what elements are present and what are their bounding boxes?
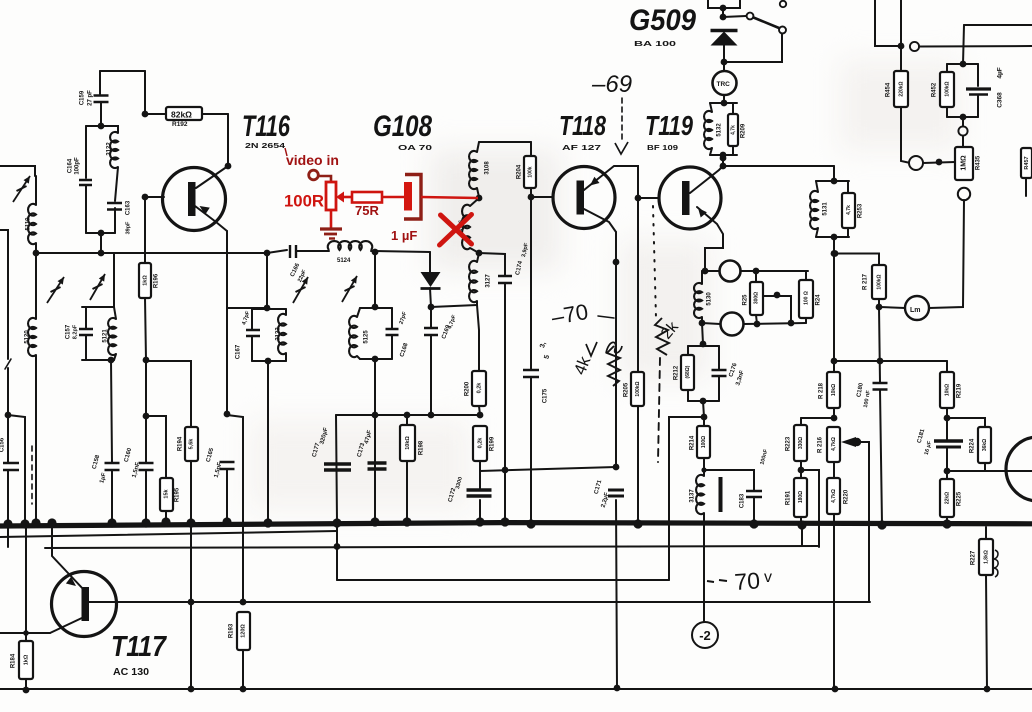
resistor R204 — [524, 156, 536, 188]
wire — [100, 233, 102, 253]
wire collector down — [615, 232, 617, 467]
wire — [391, 308, 393, 328]
bus node — [332, 518, 341, 527]
svg-text:10kΩ: 10kΩ — [944, 384, 950, 396]
svg-text:R219: R219 — [957, 383, 963, 398]
wire — [724, 34, 782, 63]
node — [699, 320, 706, 327]
node — [831, 250, 838, 257]
wire — [430, 307, 432, 327]
wire — [504, 283, 506, 470]
resistor R191 — [794, 478, 807, 517]
svg-text:5124: 5124 — [337, 258, 351, 264]
node — [720, 14, 727, 21]
wire — [285, 309, 287, 315]
node — [225, 163, 232, 170]
wire — [85, 185, 87, 233]
wire — [723, 45, 725, 62]
wire — [374, 415, 376, 521]
resistor R25 — [750, 282, 763, 315]
wire — [101, 126, 118, 133]
svg-text:100Ω: 100Ω — [701, 436, 707, 448]
capacitor C177 320uF — [324, 464, 351, 470]
inductor 5131 — [810, 191, 818, 229]
wire — [833, 408, 835, 418]
svg-text:R198: R198 — [419, 440, 425, 455]
transistor T116 — [163, 168, 226, 231]
svg-text:v: v — [764, 569, 772, 586]
wire — [962, 117, 964, 127]
wire — [429, 252, 431, 273]
resistor 75R (red) — [352, 192, 382, 203]
wire — [722, 8, 724, 17]
video in label (red) — [285, 148, 287, 156]
capacitor C166 series — [290, 245, 296, 258]
wire — [923, 162, 955, 163]
wire — [145, 113, 167, 115]
resistor R435 — [955, 147, 973, 180]
wire — [687, 346, 689, 355]
svg-text:R192: R192 — [172, 121, 188, 128]
potentiometer 100R (red) — [326, 182, 336, 210]
svg-text:C163: C163 — [126, 200, 132, 215]
wire — [702, 344, 704, 346]
svg-text:1 µF: 1 µF — [391, 228, 417, 243]
wire — [710, 148, 712, 155]
diode BA100 — [711, 29, 738, 32]
wire — [100, 102, 102, 126]
node — [720, 155, 727, 162]
bus node — [20, 519, 29, 528]
resistor R225 — [940, 479, 954, 517]
wire — [431, 305, 477, 307]
wire tank bottom — [710, 154, 737, 156]
wire — [946, 361, 948, 372]
resistor R212 — [681, 355, 694, 390]
resistor R220 — [827, 478, 840, 514]
wire — [25, 679, 27, 690]
capacitor C164 — [79, 180, 92, 185]
svg-text:C175: C175 — [543, 388, 549, 403]
bus node — [263, 518, 272, 527]
wire — [251, 336, 253, 361]
ferrite core bar — [719, 477, 723, 512]
trimmer arrow — [342, 276, 357, 302]
resistor R195 — [160, 478, 173, 511]
node — [5, 412, 12, 419]
capacitor C176 — [712, 370, 727, 376]
wire — [479, 500, 481, 521]
svg-text:T117: T117 — [111, 631, 168, 663]
svg-text:R454: R454 — [886, 82, 892, 97]
wire — [35, 176, 37, 205]
resistor R454 — [894, 71, 908, 107]
input terminal (red) — [309, 170, 319, 180]
svg-text:4,7kΩ: 4,7kΩ — [831, 489, 837, 503]
wire emitter — [584, 166, 638, 198]
svg-text:36kΩ: 36kΩ — [982, 439, 988, 451]
node — [720, 163, 727, 170]
svg-text:C183: C183 — [740, 493, 746, 508]
wire tank top — [816, 180, 849, 182]
node — [936, 159, 943, 166]
svg-text:R 218: R 218 — [819, 382, 825, 399]
resistor R199 — [473, 426, 487, 461]
wire — [963, 25, 964, 64]
bus node — [877, 520, 886, 529]
svg-text:C167: C167 — [236, 344, 242, 359]
wire — [336, 523, 338, 580]
wire — [479, 253, 505, 275]
svg-text:(68Ω): (68Ω) — [685, 365, 691, 378]
resistor R217 — [872, 265, 886, 299]
wire — [477, 301, 479, 371]
svg-text:R195: R195 — [175, 487, 181, 502]
wire emitter — [195, 206, 227, 231]
node — [700, 398, 707, 405]
wire — [35, 253, 37, 319]
bus node — [370, 517, 379, 526]
ground (red) — [320, 227, 342, 230]
inductor 3122 — [110, 132, 118, 168]
wire — [113, 253, 115, 307]
svg-text:OA 70: OA 70 — [398, 143, 432, 152]
capacitor C171 2,2uF — [608, 490, 624, 496]
svg-text:R191: R191 — [786, 490, 792, 505]
svg-text:-2: -2 — [699, 628, 711, 643]
wire — [144, 197, 146, 263]
svg-text:R 217: R 217 — [863, 273, 869, 290]
node — [372, 412, 379, 419]
wire — [357, 308, 360, 317]
wire tank top — [360, 307, 392, 309]
svg-text:R200: R200 — [465, 381, 471, 396]
resistor R196 — [139, 263, 151, 298]
terminal -2 — [692, 622, 718, 648]
wire — [114, 208, 116, 233]
svg-text:5131: 5131 — [823, 202, 829, 216]
wire — [984, 463, 986, 471]
node — [751, 520, 758, 527]
wire rail — [834, 360, 947, 362]
capacitor C165 — [220, 462, 235, 469]
svg-text:TRC: TRC — [717, 81, 731, 88]
wire — [723, 62, 725, 71]
node — [23, 687, 30, 694]
wire — [25, 524, 27, 641]
svg-text:R24: R24 — [816, 294, 822, 306]
wire collector — [584, 209, 616, 232]
wire — [816, 181, 818, 192]
wire — [99, 71, 101, 94]
resistor R200 — [472, 371, 486, 406]
component box top — [708, 0, 740, 8]
node — [143, 357, 150, 364]
svg-text:100kΩ: 100kΩ — [944, 81, 950, 96]
bus node — [633, 519, 642, 528]
node — [753, 268, 760, 275]
wire — [145, 298, 146, 360]
switch — [723, 16, 746, 17]
TRC circle — [713, 71, 737, 95]
wire — [111, 360, 112, 462]
svg-text:R225: R225 — [957, 491, 963, 506]
svg-text:5119: 5119 — [26, 217, 32, 231]
diode G108 — [421, 272, 441, 287]
resistor R205 — [631, 372, 644, 406]
wire — [723, 165, 834, 167]
svg-text:T116: T116 — [242, 110, 290, 143]
wire — [722, 155, 724, 158]
node — [143, 413, 150, 420]
wire collector — [690, 158, 723, 193]
wire — [703, 458, 705, 476]
svg-text:10kΩ: 10kΩ — [405, 436, 411, 450]
wire — [115, 167, 118, 201]
wire — [756, 315, 757, 324]
svg-text:T118: T118 — [559, 110, 606, 141]
wire — [732, 103, 734, 114]
wire — [85, 126, 87, 178]
wire — [753, 497, 755, 521]
wire feedback rail — [480, 467, 616, 471]
svg-text:120Ω: 120Ω — [240, 624, 246, 638]
wire — [704, 470, 754, 490]
node — [264, 250, 271, 257]
wire — [878, 299, 880, 307]
inductor 3116 (crossed out) — [462, 205, 470, 250]
wire — [929, 200, 964, 308]
svg-text:4,7kΩ: 4,7kΩ — [831, 437, 837, 451]
wire — [479, 461, 481, 471]
inductor 5119 — [28, 204, 36, 244]
svg-text:10kΩ: 10kΩ — [831, 384, 837, 396]
wire — [0, 166, 35, 176]
capacitor C167 — [246, 330, 260, 336]
wire — [285, 353, 287, 361]
svg-text:R214: R214 — [690, 435, 696, 450]
wire — [145, 470, 147, 521]
node — [944, 415, 951, 422]
wire — [800, 517, 802, 524]
wire — [227, 307, 267, 309]
wire — [702, 323, 703, 344]
svg-text:5121: 5121 — [103, 329, 109, 343]
wire — [946, 448, 948, 471]
svg-text:22kΩ: 22kΩ — [944, 492, 950, 504]
node — [240, 686, 247, 693]
transistor circle right edge — [1006, 437, 1032, 501]
svg-text:C157: C157 — [66, 324, 72, 339]
node — [372, 304, 379, 311]
node — [264, 305, 271, 312]
node — [774, 292, 781, 299]
svg-text:5125: 5125 — [364, 330, 370, 344]
wire — [530, 197, 532, 369]
inductor 5130 — [694, 283, 702, 318]
svg-text:70: 70 — [734, 567, 761, 595]
svg-text:100R: 100R — [284, 193, 324, 211]
capacitor C160 — [139, 463, 154, 470]
bus node — [749, 519, 758, 528]
wire — [638, 197, 659, 199]
wire — [85, 335, 87, 360]
svg-text:5120: 5120 — [25, 330, 31, 344]
svg-text:R457: R457 — [1024, 156, 1030, 169]
wire — [755, 271, 757, 282]
resistor R194 — [185, 427, 198, 461]
node — [876, 304, 883, 311]
wire — [710, 103, 712, 112]
transistor T119 — [659, 167, 721, 229]
wire — [732, 146, 734, 155]
bus node — [475, 517, 484, 526]
svg-text:3108: 3108 — [485, 161, 491, 175]
resistor R209 — [728, 114, 738, 146]
wire — [946, 517, 948, 523]
bus node — [402, 517, 411, 526]
svg-text:AC 130: AC 130 — [113, 667, 149, 678]
svg-text:R184: R184 — [11, 653, 17, 668]
wire — [85, 307, 87, 328]
svg-text:5130: 5130 — [707, 292, 713, 306]
node — [404, 412, 411, 419]
bus node — [222, 517, 231, 526]
bus node — [526, 519, 535, 528]
bus node — [161, 517, 170, 526]
node — [476, 250, 483, 257]
rail y547 — [45, 546, 819, 548]
wire — [801, 470, 819, 547]
svg-text:4,7k: 4,7k — [730, 125, 736, 135]
bottom rail y689 — [0, 688, 1032, 690]
wire — [847, 228, 849, 237]
wire — [430, 288, 431, 307]
wire to T117 base — [227, 415, 243, 601]
svg-text:R212: R212 — [674, 365, 680, 380]
svg-text:BA 100: BA 100 — [634, 39, 676, 48]
node — [614, 685, 621, 692]
wire — [0, 632, 50, 634]
inductor 5124 — [328, 241, 373, 250]
wire — [7, 470, 9, 521]
svg-text:100 Ω: 100 Ω — [803, 291, 809, 305]
wire — [406, 461, 408, 521]
wire — [718, 376, 720, 401]
node — [754, 321, 761, 328]
wire — [764, 296, 791, 323]
wire — [805, 271, 807, 280]
wire — [111, 470, 113, 521]
wire — [687, 390, 689, 401]
red wire to ground — [330, 210, 333, 228]
capacitor C368 4uF — [966, 87, 991, 90]
trimmer arrow — [13, 176, 30, 202]
resistor R218 — [827, 372, 840, 408]
wire — [251, 309, 253, 330]
wire bridge top rail — [702, 270, 719, 272]
wire — [880, 307, 905, 308]
resistor R253 — [842, 193, 855, 228]
wire — [835, 254, 879, 266]
node — [700, 341, 707, 348]
wire — [801, 525, 803, 546]
node — [898, 43, 905, 50]
node — [984, 686, 991, 693]
wire base — [145, 196, 164, 198]
node — [477, 412, 484, 419]
svg-text:100kΩ: 100kΩ — [635, 381, 641, 396]
node — [701, 467, 706, 472]
wire — [801, 417, 834, 419]
wire — [479, 471, 481, 489]
node — [23, 630, 29, 636]
node — [428, 412, 435, 419]
wire — [947, 116, 978, 118]
wire — [985, 527, 987, 539]
resistor R192 — [166, 107, 202, 120]
capacitor C158 — [105, 463, 120, 470]
svg-text:100kΩ: 100kΩ — [876, 274, 882, 289]
node — [721, 59, 728, 66]
svg-text:R199: R199 — [490, 436, 496, 451]
resistor R198 — [400, 425, 415, 461]
dashed gang line — [31, 446, 33, 504]
svg-text:R220: R220 — [844, 489, 850, 504]
wire tank top — [688, 345, 719, 347]
wire — [374, 359, 376, 415]
wire — [145, 360, 147, 462]
wire node rail — [36, 252, 267, 254]
wire — [833, 166, 835, 181]
resistor R184 — [19, 641, 33, 679]
svg-text:R435: R435 — [976, 155, 982, 170]
wire — [962, 136, 964, 147]
svg-text:2N 2654: 2N 2654 — [245, 141, 286, 150]
svg-text:AF 127: AF 127 — [562, 143, 601, 152]
wire top loop — [100, 70, 145, 72]
bus node — [107, 518, 116, 527]
node — [613, 464, 620, 471]
svg-text:G509: G509 — [629, 4, 696, 37]
capacitor C169 — [424, 328, 438, 335]
wire — [35, 355, 37, 521]
wire — [35, 243, 37, 253]
wire — [701, 271, 703, 284]
rail y602 — [88, 601, 870, 603]
svg-text:R223: R223 — [786, 436, 792, 451]
wire — [833, 361, 835, 372]
svg-text:3122: 3122 — [107, 142, 113, 156]
terminal circle — [910, 42, 919, 51]
wire R194 down — [190, 461, 192, 689]
node — [142, 111, 149, 118]
node — [188, 686, 195, 693]
inductor 3123 — [278, 314, 286, 354]
dashed arrow — [621, 98, 623, 140]
capacitor C173 47uF — [368, 463, 387, 469]
svg-text:R253: R253 — [858, 203, 864, 218]
node — [188, 599, 195, 606]
dashed pencil line lower — [658, 358, 660, 462]
node — [960, 61, 967, 68]
wire — [875, 0, 899, 46]
wire — [165, 511, 167, 521]
svg-text:Lm: Lm — [910, 307, 921, 314]
wire emitter — [52, 524, 84, 590]
node — [372, 356, 379, 363]
wire — [242, 650, 244, 689]
